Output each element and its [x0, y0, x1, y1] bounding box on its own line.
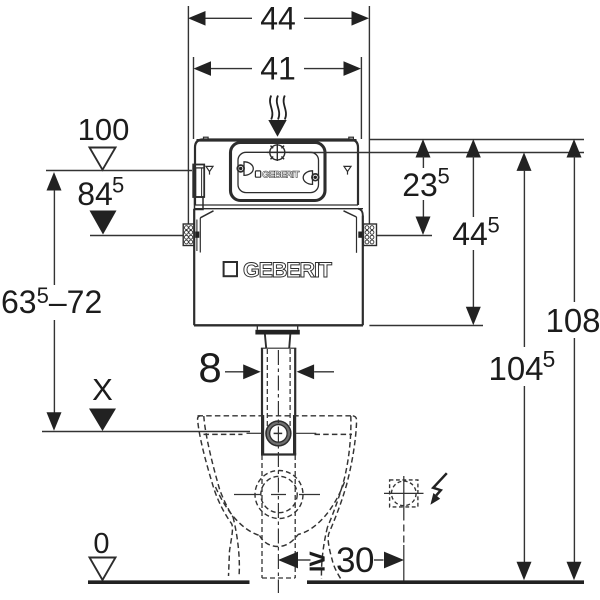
- svg-text:84: 84: [77, 176, 113, 212]
- svg-text:5: 5: [112, 173, 124, 198]
- svg-text:8: 8: [198, 344, 221, 391]
- svg-text:30: 30: [336, 541, 374, 580]
- svg-text:5: 5: [543, 346, 556, 372]
- svg-text:≥: ≥: [309, 545, 325, 578]
- svg-text:100: 100: [78, 112, 130, 147]
- svg-text:0: 0: [93, 528, 109, 560]
- svg-text:41: 41: [260, 51, 296, 87]
- svg-text:5: 5: [438, 164, 450, 189]
- svg-text:23: 23: [402, 167, 438, 203]
- svg-text:GEBERIT: GEBERIT: [262, 170, 300, 181]
- svg-text:104: 104: [488, 350, 543, 387]
- svg-text:44: 44: [452, 216, 488, 252]
- svg-text:108: 108: [545, 302, 600, 339]
- svg-text:5: 5: [488, 213, 500, 238]
- svg-text:X: X: [92, 372, 113, 407]
- svg-text:635–72: 635–72: [1, 283, 102, 320]
- svg-text:44: 44: [260, 0, 296, 36]
- svg-text:GEBERIT: GEBERIT: [243, 258, 332, 282]
